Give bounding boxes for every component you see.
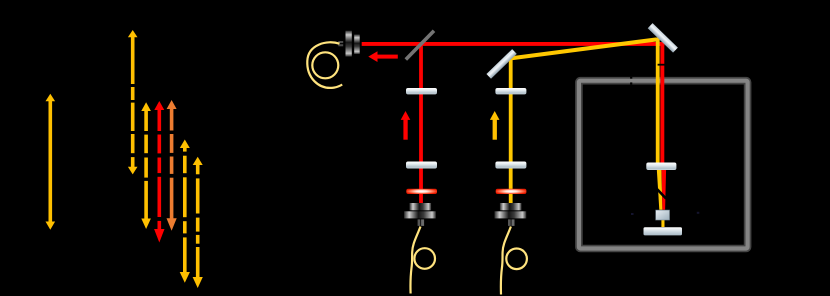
fiber pigtail (repump arm) [501,227,527,295]
transition arrow A7 (yellow double-headed) [193,157,203,288]
lens (repump arm, upper) [495,88,526,94]
frame seam notch top [630,77,632,79]
yellow beam vertical into chamber [656,38,660,163]
fiber coupler (horizontal, top left) [338,31,359,57]
lens (repump arm, lower) [495,162,526,169]
transition arrow A2 (yellow double-headed, crossed by level lines) [128,30,138,174]
fiber curl at top-left coupler [307,42,342,88]
frame seam notch bottom [630,82,632,84]
black tick across beams above chamber [658,64,667,66]
bottom mirror slab inside chamber [644,227,683,235]
transition arrow A5 (orange double-headed) [167,100,177,231]
mirror M2 (silver, 45 deg) [486,49,516,79]
red filter slab (probe arm) [406,189,437,194]
tiny coil dot left [631,213,634,215]
beamsplitter plate [406,31,434,60]
lens (probe arm, lower) [406,162,437,169]
tiny coil dot right [697,212,700,214]
red up arrow (probe arm propagation direction) [401,111,411,140]
black slash over focus [656,188,666,199]
yellow beam vertical (repump arm through lenses) [509,57,513,203]
transition arrow A3 (yellow double-headed) [141,102,151,229]
transition arrow A1 (yellow double-headed) [46,94,56,230]
fiber pigtail (probe arm) [410,227,435,294]
red beam vertical (probe arm through lenses) [419,44,423,203]
yellow slant beam from mirror M2 to mirror M1 [510,38,660,61]
vacuum chamber frame [579,81,748,249]
converging red beam below in-chamber lens [662,169,667,210]
red beam horizontal (from fiber coupler to mirror M1) [362,42,665,46]
converging yellow beam below in-chamber lens [657,169,663,210]
lens inside chamber [646,163,676,171]
lens (probe arm, upper) [406,88,437,94]
glass cell / cube inside chamber [656,210,670,220]
transition arrow A4 (red double-headed) [154,101,164,243]
fiber coupler (vertical, probe arm) [404,203,436,226]
mirror M1 (silver, 45 deg, top right) [648,23,678,52]
fiber coupler (vertical, repump arm) [495,203,527,226]
red beam vertical into chamber [660,42,664,163]
transition arrow A6 (yellow double-headed) [180,140,190,283]
red arrow (output beam direction, pointing left) [368,51,398,62]
yellow up arrow (repump arm propagation direction) [490,111,500,140]
yellow stub below cube [661,220,664,228]
red filter slab (repump arm) [496,189,527,194]
